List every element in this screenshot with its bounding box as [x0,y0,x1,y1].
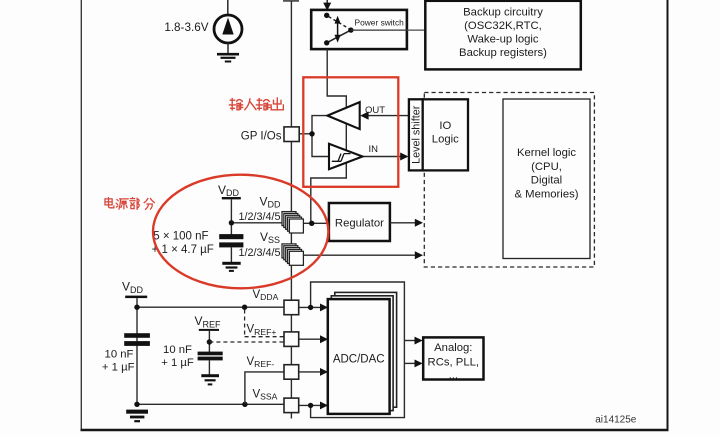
svg-text:OUT: OUT [365,105,385,116]
svg-text:10 nF: 10 nF [163,344,192,356]
svg-text:+ 1 µF: + 1 µF [161,357,194,369]
svg-text:Logic: Logic [432,133,459,145]
svg-text:& Memories): & Memories) [514,188,578,200]
svg-text:Backup circuitry: Backup circuitry [463,6,543,18]
svg-text:5 × 100 nF: 5 × 100 nF [153,231,208,243]
svg-text:(CPU,: (CPU, [531,161,562,173]
svg-text:Power switch: Power switch [355,17,405,27]
svg-text:Wake-up logic: Wake-up logic [467,33,539,45]
svg-text:ai14125e: ai14125e [595,415,637,426]
svg-text:1.8-3.6V: 1.8-3.6V [164,21,208,34]
svg-text:GP I/Os: GP I/Os [241,130,282,142]
svg-text:Kernel logic: Kernel logic [517,147,576,159]
svg-text:IN: IN [369,144,379,155]
svg-text:Analog:: Analog: [434,342,472,354]
svg-text:10 nF: 10 nF [105,349,134,361]
svg-text:Level shifter: Level shifter [410,105,422,164]
svg-text:1/2/3/4/5: 1/2/3/4/5 [238,211,280,223]
svg-text:ADC/DAC: ADC/DAC [333,354,385,366]
svg-text:Regulator: Regulator [335,217,384,229]
svg-text:(OSC32K,RTC,: (OSC32K,RTC, [464,20,542,32]
svg-text:+ 1 µF: + 1 µF [102,362,135,374]
svg-text:Backup registers): Backup registers) [459,47,547,59]
svg-text:RCs, PLL,: RCs, PLL, [428,356,479,368]
svg-text:IO: IO [439,120,451,132]
svg-text:...: ... [449,370,458,382]
svg-text:Digital: Digital [531,175,562,187]
svg-text:1/2/3/4/5: 1/2/3/4/5 [238,247,280,259]
